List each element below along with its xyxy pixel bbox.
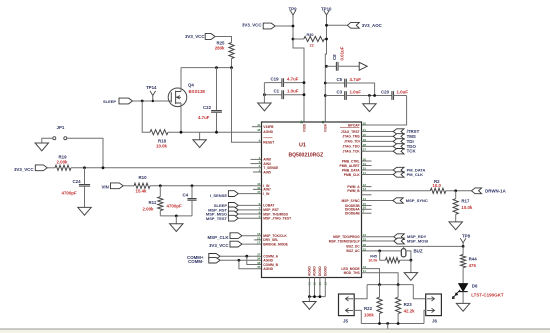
wire C19/C1 left column to ground xyxy=(263,83,265,103)
wire R2 to DRWN flag xyxy=(446,190,472,192)
wire VIN to R10 xyxy=(123,185,134,187)
wire bottom ground row xyxy=(361,323,424,325)
svg-text:1.0uF: 1.0uF xyxy=(397,89,409,94)
capacitor C3 xyxy=(324,94,327,97)
wire BUZ_DC row to TP8 xyxy=(362,245,464,247)
svg-text:C5: C5 xyxy=(337,77,343,82)
svg-text:10.0: 10.0 xyxy=(432,183,441,188)
junction Q4 source / AGND row xyxy=(180,131,183,134)
resistor R44 xyxy=(462,246,464,254)
svg-text:R22: R22 xyxy=(364,306,373,311)
flag DRWN-1A xyxy=(472,188,482,194)
stub AIN5 xyxy=(253,171,262,173)
svg-text:45: 45 xyxy=(257,265,261,269)
ground AGND2 symbol xyxy=(387,324,389,330)
wire SLEEP row to Q4 gate xyxy=(133,100,172,102)
svg-text:47: 47 xyxy=(257,190,261,194)
capacitor C4 xyxy=(191,186,193,199)
svg-text:100k: 100k xyxy=(364,312,374,317)
ground C19/C1 xyxy=(258,103,271,111)
svg-text:TCK: TCK xyxy=(407,149,417,154)
svg-text:VIN: VIN xyxy=(101,184,108,189)
svg-text:10.0k: 10.0k xyxy=(368,258,378,262)
wire flag to R25 top xyxy=(215,37,231,43)
flag PMB_CLK xyxy=(362,174,394,176)
svg-text:2.00k: 2.00k xyxy=(57,159,69,164)
wire TP9 rail to V33D pin xyxy=(293,17,304,122)
svg-text:C3: C3 xyxy=(337,89,343,94)
off-page arrow C8 xyxy=(359,62,367,70)
svg-text:10.0k: 10.0k xyxy=(461,205,473,210)
wire top row joining J5/J6 xyxy=(367,284,413,286)
svg-text:PM_CLK: PM_CLK xyxy=(407,172,424,177)
svg-text:JTAG_TCK: JTAG_TCK xyxy=(343,150,361,154)
svg-text:3V3_VCC: 3V3_VCC xyxy=(14,167,34,172)
svg-text:3V3_VCC: 3V3_VCC xyxy=(185,34,205,39)
wire flag to R19 xyxy=(47,167,55,169)
svg-text:Q4: Q4 xyxy=(188,83,194,88)
svg-text:0.01uF: 0.01uF xyxy=(340,46,345,60)
wire PWM_B to R2 xyxy=(362,190,431,192)
wire JP1 right to T_SENSE row xyxy=(67,138,103,168)
svg-text:PWM_B: PWM_B xyxy=(347,189,360,193)
flag PMB_DATA xyxy=(362,169,394,171)
ground R17 xyxy=(449,222,462,230)
svg-text:C22: C22 xyxy=(203,105,212,110)
wire SLEEP gate stub xyxy=(170,100,172,102)
flag 3V3_AOC xyxy=(327,24,348,26)
svg-text:BPCAP: BPCAP xyxy=(348,123,360,127)
svg-text:DGND: DGND xyxy=(324,266,328,276)
svg-text:RESET: RESET xyxy=(263,141,274,145)
svg-text:MSP_CLK: MSP_CLK xyxy=(208,235,230,240)
svg-text:4700pF: 4700pF xyxy=(167,203,182,208)
svg-text:D6: D6 xyxy=(472,284,478,289)
svg-text:4.7uF: 4.7uF xyxy=(287,76,299,81)
svg-text:BSS138: BSS138 xyxy=(189,89,206,94)
svg-text:PMB_ALERT: PMB_ALERT xyxy=(340,164,360,168)
resistor R10 xyxy=(134,183,150,188)
resistor R22 xyxy=(379,285,381,298)
wire R11/C4 bottom join xyxy=(160,215,192,217)
svg-text:TP8: TP8 xyxy=(462,233,471,238)
wire J5 bottom pin to ground row xyxy=(354,310,361,323)
svg-text:280k: 280k xyxy=(215,45,225,50)
flag MSP_SYNC xyxy=(362,200,393,202)
op-amp U1 BQ500210RGZ main IC box xyxy=(262,122,362,278)
stub PMB_CTRL xyxy=(362,160,372,162)
wire T_SENSE row to IC pin 2 xyxy=(71,167,262,169)
svg-text:AIN5: AIN5 xyxy=(263,170,271,174)
svg-text:C20: C20 xyxy=(381,89,390,94)
capacitor C8 xyxy=(325,65,328,68)
flags JTAG /TRST TMS TDI TDO TCK xyxy=(393,129,404,134)
svg-text:JP1: JP1 xyxy=(57,125,65,130)
svg-text:I_IN: I_IN xyxy=(263,192,270,196)
JTAG_TRST pin name overline xyxy=(340,126,360,128)
wire TP10 rail to V33A pin xyxy=(325,17,326,122)
wire COMM+ to COMM_A and COMM_B xyxy=(220,255,261,257)
wire BUZ_AC row xyxy=(362,250,402,252)
junction R11 tap xyxy=(159,184,162,187)
wire top rail Q4 drain / C22 / R25 xyxy=(181,67,232,69)
svg-text:41: 41 xyxy=(257,123,261,127)
resistor R45 xyxy=(380,251,386,260)
svg-text:MSP_SYNC: MSP_SYNC xyxy=(342,199,361,203)
svg-text:10.0k: 10.0k xyxy=(156,143,168,148)
ground R11/C4 xyxy=(175,216,177,224)
svg-text:TP14: TP14 xyxy=(146,85,157,90)
svg-text:R30: R30 xyxy=(307,33,314,37)
resistor R17 xyxy=(455,191,457,199)
svg-text:PMB_CLK: PMB_CLK xyxy=(344,173,361,177)
svg-text:2.00k: 2.00k xyxy=(143,206,155,211)
svg-text:I_SENSE: I_SENSE xyxy=(210,193,227,198)
wire R45 right to ground node xyxy=(400,259,411,261)
transistor Q4 BSS138 xyxy=(168,88,187,107)
wire bottom AGND/PGND/DGND pins xyxy=(308,278,310,297)
svg-text:AGND: AGND xyxy=(263,267,273,271)
svg-text:U1: U1 xyxy=(299,143,306,149)
svg-text:MSP_SYNC: MSP_SYNC xyxy=(406,198,428,203)
wire J6 bottom pin to ground row xyxy=(424,310,426,323)
wire R25 bottom to rail xyxy=(231,59,233,68)
svg-text:AGND: AGND xyxy=(263,130,273,134)
junction JP1 drop xyxy=(102,166,105,169)
wire R44 to LED xyxy=(462,268,464,284)
stub PWM_A xyxy=(362,186,372,188)
svg-text:R44: R44 xyxy=(469,256,478,261)
wire Q4 drain up xyxy=(180,68,182,92)
svg-text:C8: C8 xyxy=(332,54,337,60)
svg-text:MSP_JTAG_TEST: MSP_JTAG_TEST xyxy=(263,217,291,221)
resistor R2 xyxy=(430,188,446,193)
wires JTAG pins to flags xyxy=(362,131,394,133)
svg-text:AGND: AGND xyxy=(313,266,317,276)
svg-text:R23: R23 xyxy=(404,302,413,307)
stub AIN7 xyxy=(253,188,262,190)
svg-text:MSP_TEST: MSP_TEST xyxy=(206,216,228,221)
svg-text:V33FB: V33FB xyxy=(263,125,274,129)
junction R18 branch xyxy=(141,100,144,103)
svg-text:1.0uF: 1.0uF xyxy=(350,89,362,94)
svg-text:C19: C19 xyxy=(271,76,280,81)
svg-text:PMB_CTRL: PMB_CTRL xyxy=(342,159,360,163)
wire SLEEP down to R18 xyxy=(142,101,150,132)
svg-text:DGND: DGND xyxy=(318,266,322,276)
svg-text:BUZ_DC: BUZ_DC xyxy=(346,245,360,249)
capacitor C22 xyxy=(216,68,218,111)
junction R17 tap xyxy=(454,189,457,192)
stub PMB_ALERT xyxy=(362,165,372,167)
svg-text:25: 25 xyxy=(363,121,367,125)
buzzer BUZ xyxy=(401,249,406,257)
junction C22 bottom / AGND row xyxy=(215,131,218,134)
capacitor C24 xyxy=(84,168,86,185)
ground C24 xyxy=(78,207,91,215)
wire MOD_THS to R23 column xyxy=(362,273,399,285)
junction C4 tap xyxy=(191,184,194,187)
resistor R11 xyxy=(159,186,161,197)
svg-text:42.2k: 42.2k xyxy=(404,308,416,313)
capacitor C5 xyxy=(324,82,327,85)
svg-text:R11: R11 xyxy=(149,200,157,205)
junction R45 tap xyxy=(378,250,381,253)
stub V33FB xyxy=(252,126,262,128)
svg-text:R10: R10 xyxy=(139,175,148,180)
ground IC bottom xyxy=(308,297,310,302)
svg-text:MOD_THS: MOD_THS xyxy=(344,271,361,275)
resistor R19 xyxy=(55,165,71,170)
wire JP1 left to ground xyxy=(42,138,53,143)
svg-text:J6: J6 xyxy=(432,318,437,323)
connector J5 xyxy=(339,294,355,316)
wire C20 to BPCAP pin 25 xyxy=(362,96,407,126)
flag MSP_MOSI xyxy=(362,240,394,242)
connector J6 xyxy=(426,294,442,316)
wire COMM- to AGND pins xyxy=(220,259,261,261)
svg-text:475: 475 xyxy=(469,263,477,268)
ground below Q4 source row xyxy=(199,132,201,140)
junction ground tap C3 row xyxy=(368,94,371,97)
wire RESET net down to pin 9 xyxy=(232,68,262,143)
svg-text:AGND: AGND xyxy=(308,266,312,276)
svg-text:4700pF: 4700pF xyxy=(62,191,77,196)
stub DRV_SEL xyxy=(254,239,262,241)
ground C3/C5/C20 row xyxy=(368,96,370,104)
svg-text:17: 17 xyxy=(257,241,261,245)
resistor R25 xyxy=(229,43,234,59)
svg-text:J5: J5 xyxy=(343,318,348,323)
flag MSP_RDY xyxy=(362,236,394,238)
junction ground stem xyxy=(175,215,178,218)
svg-text:1.0uF: 1.0uF xyxy=(287,89,299,94)
capacitor C1 xyxy=(264,94,282,96)
svg-text:4.7uF: 4.7uF xyxy=(350,77,362,82)
wire Q4 source down xyxy=(180,103,182,132)
svg-text:3V3_AOC: 3V3_AOC xyxy=(362,23,383,28)
stubs DIODE2B DIODE4A DIODE4B xyxy=(362,194,372,196)
wire I_IN row to IC pin 43 xyxy=(150,185,262,187)
svg-text:C1: C1 xyxy=(274,89,280,94)
svg-text:DIODE4B: DIODE4B xyxy=(345,212,360,216)
svg-text:BUZ_AC: BUZ_AC xyxy=(346,249,360,253)
svg-text:JTAG_TDI: JTAG_TDI xyxy=(344,140,360,144)
svg-text:3V3_VCC: 3V3_VCC xyxy=(242,22,262,27)
svg-text:BUZ: BUZ xyxy=(414,249,423,254)
junction C24 tap xyxy=(83,166,86,169)
svg-text:MSP_TDI/MOSI/SLP: MSP_TDI/MOSI/SLP xyxy=(329,239,361,243)
capacitor C20 xyxy=(392,91,394,100)
svg-text:LOBAT: LOBAT xyxy=(263,204,274,208)
svg-text:DRWN-1A: DRWN-1A xyxy=(485,189,506,194)
wire AGND row to IC pin 48 xyxy=(168,131,262,133)
svg-text:3V3_VCC: 3V3_VCC xyxy=(209,243,229,248)
stub AIN3 xyxy=(251,163,262,165)
IC left pin names and numbers xyxy=(257,123,291,271)
svg-text:R17: R17 xyxy=(461,198,470,203)
ground buzzer node xyxy=(410,260,412,272)
svg-text:4.7uF: 4.7uF xyxy=(198,115,210,120)
svg-text:PMB_DATA: PMB_DATA xyxy=(342,168,360,172)
wire J5 top pin xyxy=(354,285,367,299)
svg-text:31: 31 xyxy=(321,120,325,124)
svg-text:15.4k: 15.4k xyxy=(136,189,148,194)
svg-text:C24: C24 xyxy=(73,179,82,184)
svg-text:COMM-: COMM- xyxy=(188,259,204,264)
svg-text:BQ500210RGZ: BQ500210RGZ xyxy=(289,153,324,159)
svg-text:JTAG_TRST: JTAG_TRST xyxy=(341,130,360,134)
svg-text:22: 22 xyxy=(310,44,314,48)
resistor R23 xyxy=(397,285,399,298)
wire LED_MODE to R22 column xyxy=(362,269,380,285)
svg-text:MSP_MOSI: MSP_MOSI xyxy=(407,239,428,244)
wire LED cathode to ground xyxy=(462,292,464,304)
svg-text:LTST-C190GKT: LTST-C190GKT xyxy=(471,292,504,297)
RESET pin overline xyxy=(263,137,272,139)
junction R25/RESET corner xyxy=(230,66,233,69)
stub AIN8 xyxy=(251,158,262,160)
page border line xyxy=(0,329,550,333)
svg-text:BRIDGE_MODE: BRIDGE_MODE xyxy=(263,242,288,246)
svg-text:SLEEP: SLEEP xyxy=(103,99,116,104)
svg-text:JTAG_TDO: JTAG_TDO xyxy=(342,145,360,149)
wire buzzer right terminal xyxy=(406,251,411,260)
ground JP1 xyxy=(35,143,48,151)
ground D6 xyxy=(456,303,469,311)
wire J6 top pin xyxy=(413,285,425,299)
svg-text:33: 33 xyxy=(300,120,304,124)
IC right pin names and numbers xyxy=(329,121,367,275)
LED D6 LTST-C190GKT xyxy=(459,284,468,292)
junction C22 top xyxy=(215,66,218,69)
svg-text:C4: C4 xyxy=(183,193,189,198)
svg-text:TP10: TP10 xyxy=(321,6,332,11)
svg-text:JTAG_TMS: JTAG_TMS xyxy=(342,135,360,139)
capacitor C19 xyxy=(264,82,282,84)
svg-text:48: 48 xyxy=(257,128,261,132)
resistor R18 xyxy=(150,130,168,135)
resistor R30 xyxy=(292,38,295,41)
